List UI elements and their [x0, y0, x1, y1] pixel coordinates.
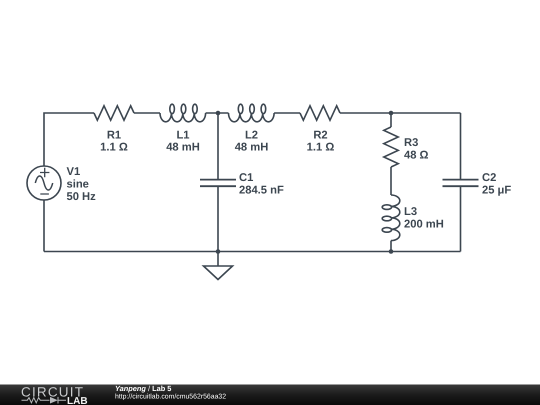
bottom rail wire — [44, 251, 461, 253]
svg-text:284.5 nF: 284.5 nF — [239, 185, 284, 197]
inductor L3 — [382, 195, 400, 241]
wire R3 to L3 — [390, 167, 392, 195]
svg-text:R2: R2 — [313, 130, 327, 142]
svg-text:R3: R3 — [404, 137, 418, 149]
svg-text:R1: R1 — [107, 130, 121, 142]
resistor R1 — [94, 106, 134, 120]
junction node ground — [216, 249, 221, 254]
wire right branch lower — [460, 186, 462, 251]
wire V1 bottom to bottom rail — [43, 200, 45, 252]
wire R1 to L1 — [134, 112, 160, 114]
svg-text:48 mH: 48 mH — [235, 142, 269, 154]
inductor L2 — [229, 104, 275, 122]
wire right branch upper — [460, 113, 462, 179]
ground symbol — [204, 252, 233, 280]
svg-text:C1: C1 — [239, 172, 253, 184]
wire top from V1 to R1 — [44, 113, 94, 166]
wire C1 branch upper — [217, 113, 219, 179]
capacitor C1 — [200, 180, 236, 187]
wire C1 branch lower — [217, 186, 219, 251]
svg-text:L1: L1 — [176, 130, 189, 142]
svg-text:200 mH: 200 mH — [404, 219, 444, 231]
logo diode triangle — [50, 397, 58, 404]
wire L2 to R2 — [274, 112, 300, 114]
svg-text:48 Ω: 48 Ω — [404, 149, 429, 161]
svg-text:C2: C2 — [482, 172, 496, 184]
wire R3 branch top stub — [390, 113, 392, 127]
svg-text:Yanpeng / Lab 5: Yanpeng / Lab 5 — [115, 384, 171, 393]
svg-text:1.1 Ω: 1.1 Ω — [100, 142, 128, 154]
wire L1 to L2 through node — [206, 112, 229, 114]
inductor L1 — [160, 104, 206, 122]
svg-text:L3: L3 — [404, 206, 417, 218]
footer black bar — [0, 385, 540, 405]
svg-text:1.1 Ω: 1.1 Ω — [307, 142, 335, 154]
svg-text:L2: L2 — [245, 130, 258, 142]
svg-text:50 Hz: 50 Hz — [67, 191, 97, 203]
svg-text:V1: V1 — [67, 166, 81, 178]
logo resistor-diode line — [22, 397, 67, 404]
svg-text:25 μF: 25 μF — [482, 185, 511, 197]
svg-text:sine: sine — [67, 178, 89, 190]
wire L3 to bottom rail — [390, 241, 392, 252]
junction node at R3 top — [389, 111, 394, 116]
svg-text:LAB: LAB — [67, 396, 88, 405]
svg-text:http://circuitlab.com/cmu562r5: http://circuitlab.com/cmu562r56aa32 — [115, 393, 226, 400]
resistor R3 — [384, 127, 398, 167]
wire R2 to top right corner — [340, 112, 461, 114]
resistor R2 — [300, 106, 340, 120]
svg-text:48 mH: 48 mH — [166, 142, 200, 154]
junction node L3 bottom — [389, 249, 394, 254]
junction node at C1 top — [216, 111, 221, 116]
voltage source V1 — [27, 166, 61, 200]
capacitor C2 — [443, 180, 479, 187]
